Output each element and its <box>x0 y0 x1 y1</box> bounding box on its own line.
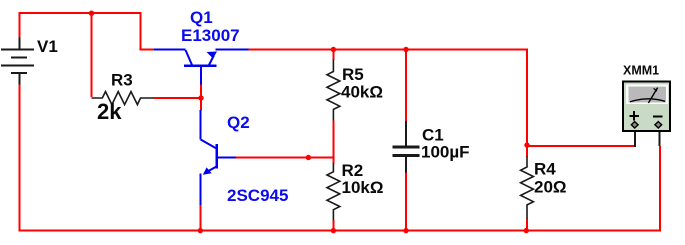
svg-text:Q1: Q1 <box>190 8 213 27</box>
svg-text:R3: R3 <box>111 71 133 90</box>
svg-text:R4: R4 <box>534 159 556 178</box>
svg-text:R5: R5 <box>342 65 364 84</box>
svg-text:Q2: Q2 <box>227 113 250 132</box>
svg-text:E13007: E13007 <box>181 26 240 45</box>
svg-text:V1: V1 <box>37 37 58 56</box>
svg-text:40kΩ: 40kΩ <box>341 82 383 101</box>
svg-text:2SC945: 2SC945 <box>227 186 288 205</box>
svg-text:100µF: 100µF <box>421 142 470 161</box>
svg-text:2k: 2k <box>97 99 122 124</box>
svg-text:10kΩ: 10kΩ <box>342 178 384 197</box>
svg-text:XMM1: XMM1 <box>623 63 659 77</box>
svg-text:20Ω: 20Ω <box>534 178 567 197</box>
